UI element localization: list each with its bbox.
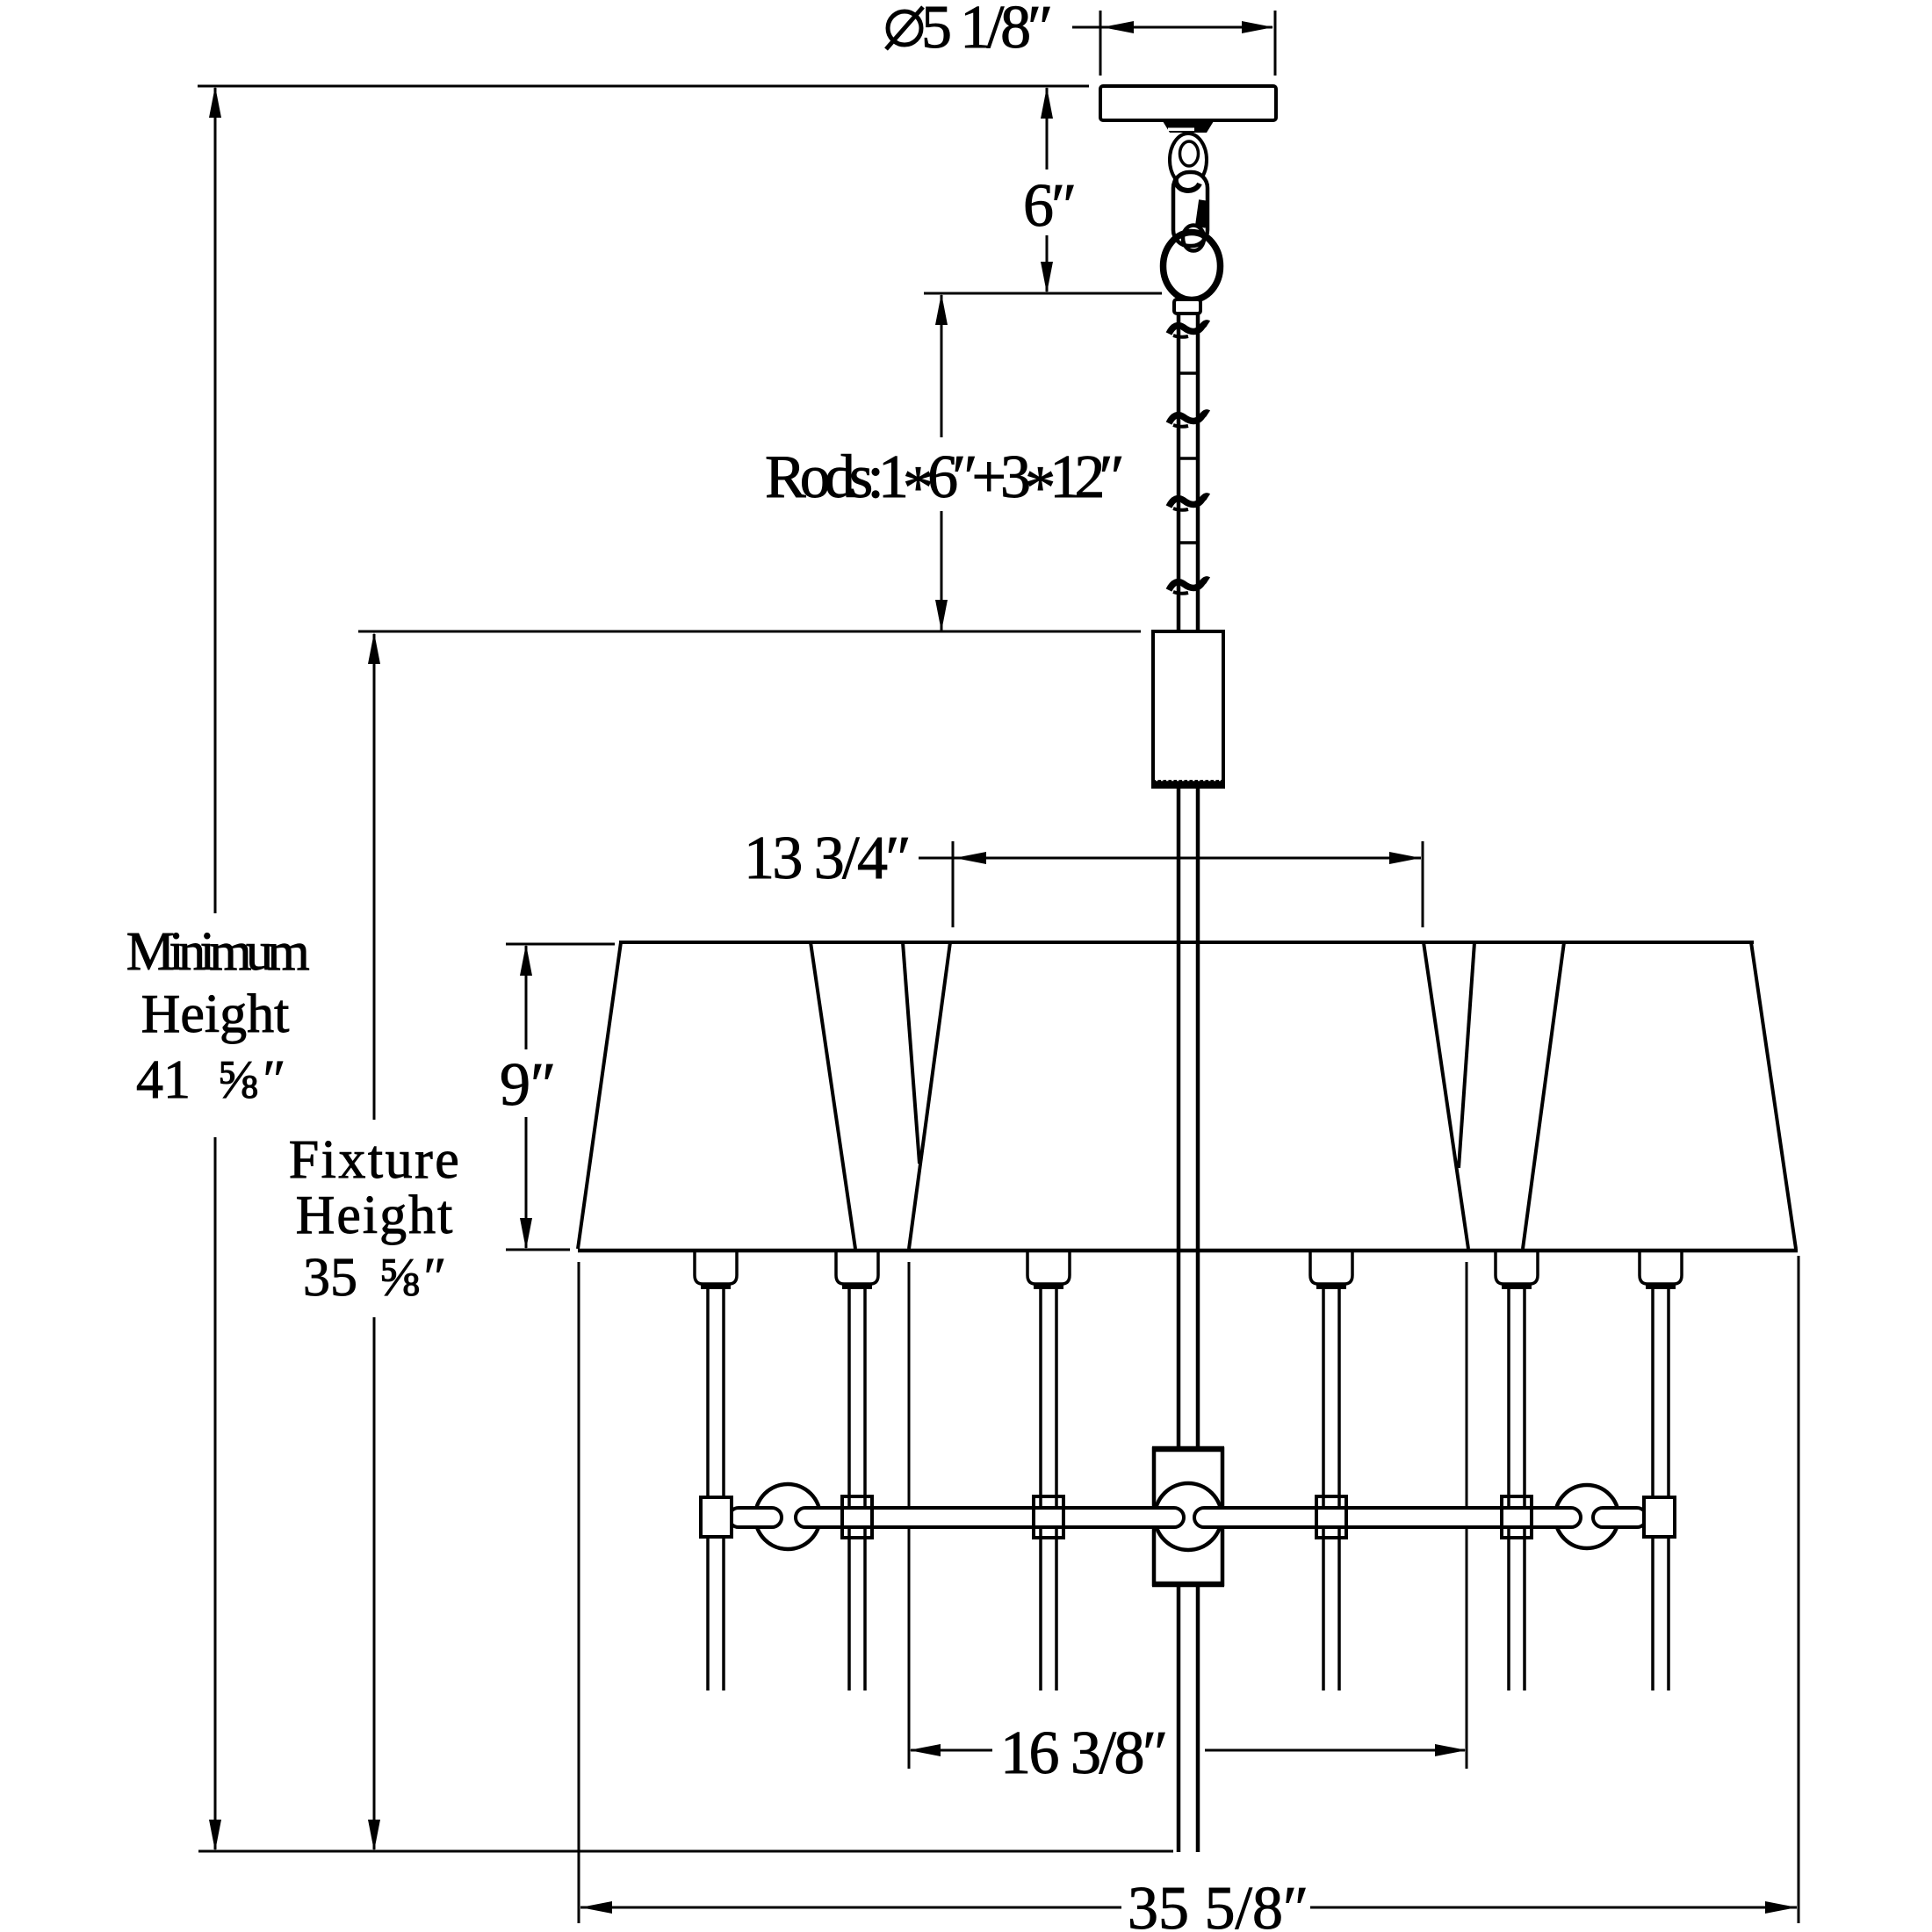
end square rod6 — [1644, 1497, 1675, 1537]
svg-text:9″: 9″ — [500, 1051, 556, 1119]
upper rod — [1179, 314, 1198, 631]
dimension minimum-height vertical line — [209, 86, 221, 1851]
candle rod 5 — [1509, 1289, 1525, 1690]
label Minimum Height 41 5/8 — [126, 922, 310, 1110]
svg-text:Minimum: Minimum — [126, 922, 310, 982]
svg-text:Height: Height — [296, 1186, 455, 1245]
arm bar right stub — [1593, 1508, 1647, 1527]
dimension dia 5 1/8 — [1072, 11, 1275, 76]
arm bar left stub — [729, 1508, 782, 1527]
svg-text:13 3/4″: 13 3/4″ — [744, 825, 909, 892]
coupler rod3 — [1034, 1496, 1063, 1538]
dimension fixture-height vertical line — [368, 632, 380, 1851]
front-center shade right edge — [1424, 942, 1468, 1249]
shade top rim — [619, 941, 1754, 944]
end square rod1 — [701, 1497, 732, 1537]
extension line fixture bottom — [198, 1850, 1173, 1853]
rod ferrule — [1174, 299, 1200, 314]
label Fixture Height 35 5/8 — [289, 1130, 462, 1308]
lamp socket 4 — [1310, 1251, 1352, 1289]
stem cylinder — [1153, 631, 1223, 787]
candle rod 1 — [708, 1289, 724, 1690]
coupler rod2 — [842, 1496, 872, 1538]
front-right shade right edge — [1751, 942, 1796, 1249]
central hub — [1154, 1449, 1222, 1584]
hub ball — [1155, 1483, 1222, 1550]
ring — [1164, 233, 1221, 300]
dimension 9-inch — [506, 944, 615, 1250]
coupler rod4 — [1316, 1496, 1346, 1538]
front-right shade left edge — [1523, 942, 1564, 1249]
link-ring joint — [1183, 226, 1204, 251]
svg-text:16 3/8″: 16 3/8″ — [1000, 1719, 1166, 1787]
lamp socket 2 — [836, 1251, 878, 1289]
label dia 5 1/8 — [886, 0, 1050, 61]
extension line canopy top — [198, 85, 1089, 88]
dimension rods vertical line — [935, 293, 948, 631]
swivel hook over link — [1176, 178, 1200, 191]
svg-text:6″: 6″ — [1023, 172, 1074, 240]
rod knot 1 — [1169, 323, 1208, 337]
dimension 13 3/4 — [919, 841, 1423, 927]
coupler rod5 — [1502, 1496, 1532, 1538]
arm bar left span — [796, 1508, 1184, 1527]
candle rod 2 — [849, 1289, 865, 1690]
canopy — [1100, 86, 1276, 120]
swivel loop — [1170, 133, 1207, 186]
dimension 6-inch vertical line — [1041, 87, 1053, 293]
link screw sleeve — [1195, 199, 1209, 227]
dimension 16 3/8 — [909, 1262, 1467, 1769]
front-left shade right edge — [811, 942, 855, 1249]
canopy collar — [1163, 121, 1214, 133]
svg-text:Height: Height — [141, 984, 290, 1044]
lamp socket 3 — [1027, 1251, 1070, 1289]
arm bar right span — [1194, 1508, 1581, 1527]
svg-text:Fixture: Fixture — [289, 1130, 462, 1190]
rod knot 2 — [1169, 413, 1208, 427]
lower stem rod — [1179, 787, 1198, 1852]
lamp socket 6 — [1640, 1251, 1682, 1289]
svg-text:Rods:1*6″+3*12″: Rods:1*6″+3*12″ — [765, 443, 1121, 522]
extension line rods top (ring bottom) — [924, 292, 1162, 295]
rod knot 4 — [1169, 580, 1208, 594]
extension line fixture top — [358, 631, 1141, 633]
candle rod 4 — [1323, 1289, 1339, 1690]
candle rod 6 — [1653, 1289, 1669, 1690]
svg-text:5 1/8″: 5 1/8″ — [921, 0, 1050, 61]
rod joint lines — [1179, 373, 1198, 543]
right ball — [1555, 1485, 1618, 1548]
left ball — [755, 1484, 820, 1549]
back shade right edge — [1459, 942, 1474, 1168]
front-left shade left edge — [578, 942, 621, 1249]
lamp socket 5 — [1496, 1251, 1538, 1289]
lamp socket 1 — [695, 1251, 737, 1289]
front-center shade left edge — [909, 942, 950, 1249]
svg-text:35 5/8″: 35 5/8″ — [1128, 1875, 1308, 1932]
back shade left edge — [903, 942, 919, 1164]
dimension 35 5/8 — [579, 1256, 1799, 1923]
shade bottom rim — [578, 1249, 1798, 1253]
candle rod 3 — [1041, 1289, 1056, 1690]
quick link — [1173, 172, 1207, 246]
rod knot 3 — [1169, 496, 1208, 510]
